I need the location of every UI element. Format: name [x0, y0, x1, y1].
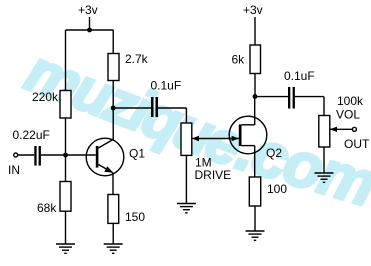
output terminal OUT: [344, 127, 370, 151]
resistor 2.7k: [108, 52, 149, 81]
wire top rail left: [66, 29, 114, 31]
JFET Q2: [229, 116, 282, 160]
svg-text:OUT: OUT: [344, 137, 370, 151]
svg-text:DRIVE: DRIVE: [195, 168, 232, 182]
wire IN to capacitor: [18, 154, 35, 156]
wire drain node to output cap: [255, 96, 288, 98]
svg-text:+3v: +3v: [243, 3, 263, 17]
power +3v left: [78, 3, 98, 30]
wire node to Q1 base: [66, 154, 96, 156]
ground under 100k pot: [315, 173, 334, 182]
wire capacitor to node: [41, 154, 66, 156]
capacitor 0.1uF left: [151, 79, 182, 118]
ground under 68k: [56, 244, 75, 253]
wire Q1 emitter to 150: [112, 173, 114, 196]
resistor 6k: [232, 45, 261, 74]
wire 100 to ground: [254, 206, 256, 231]
wire drain node to Q2: [254, 97, 256, 126]
wire 220k to input node: [65, 118, 67, 155]
resistor 100: [249, 177, 287, 206]
svg-text:150: 150: [125, 210, 145, 224]
transistor Q1: [86, 138, 145, 176]
svg-text:100: 100: [267, 182, 287, 196]
wire cap to 1M pot: [158, 108, 186, 124]
wire cap to 100k pot: [295, 97, 324, 116]
svg-text:0.22uF: 0.22uF: [13, 128, 50, 142]
potentiometer 1M DRIVE: [181, 123, 231, 182]
wire 100k pot to ground: [323, 147, 325, 173]
wire rail to 220k: [65, 30, 67, 91]
resistor 68k: [37, 182, 71, 216]
capacitor 0.1uF right: [284, 69, 315, 109]
svg-text:VOL: VOL: [336, 108, 360, 122]
ground under 150: [104, 244, 123, 253]
junction top rail: [87, 28, 92, 33]
wire 2.7k to collector node: [112, 81, 114, 109]
junction input node: [63, 153, 68, 158]
ground under 100: [246, 231, 265, 240]
svg-text:0.1uF: 0.1uF: [151, 79, 182, 93]
svg-text:2.7k: 2.7k: [125, 52, 149, 66]
svg-text:Q2: Q2: [266, 146, 282, 160]
wire node to 68k: [65, 155, 67, 182]
potentiometer 100k VOL: [319, 94, 364, 147]
junction drain node: [253, 94, 258, 99]
wire rail to 2.7k: [112, 30, 114, 54]
input terminal IN: [8, 153, 20, 177]
svg-text:Q1: Q1: [129, 147, 145, 161]
wiper wire pot to OUT: [330, 127, 353, 132]
svg-text:IN: IN: [8, 163, 20, 177]
resistor 220k: [32, 90, 71, 118]
svg-text:+3v: +3v: [78, 3, 98, 17]
wire 68k to ground: [65, 211, 67, 244]
svg-text:68k: 68k: [37, 201, 57, 215]
wire Q2 source to 100: [254, 146, 256, 178]
svg-text:220k: 220k: [32, 90, 59, 104]
wiper wire pot to Q2 gate: [192, 136, 239, 141]
wire collector node to Q1: [112, 108, 114, 140]
svg-text:100k: 100k: [337, 94, 364, 108]
junction collector node: [111, 106, 116, 111]
wire node to coupling cap: [113, 107, 151, 109]
ground under 1M pot: [177, 204, 196, 213]
svg-text:0.1uF: 0.1uF: [284, 69, 315, 83]
wire 150 to ground: [112, 223, 114, 244]
svg-text:6k: 6k: [232, 53, 246, 67]
capacitor 0.22uF: [13, 128, 50, 166]
wire 6k to drain node: [254, 74, 256, 97]
resistor 150: [108, 195, 145, 225]
power +3v right: [243, 3, 263, 45]
wire 1M pot to ground: [185, 155, 187, 203]
